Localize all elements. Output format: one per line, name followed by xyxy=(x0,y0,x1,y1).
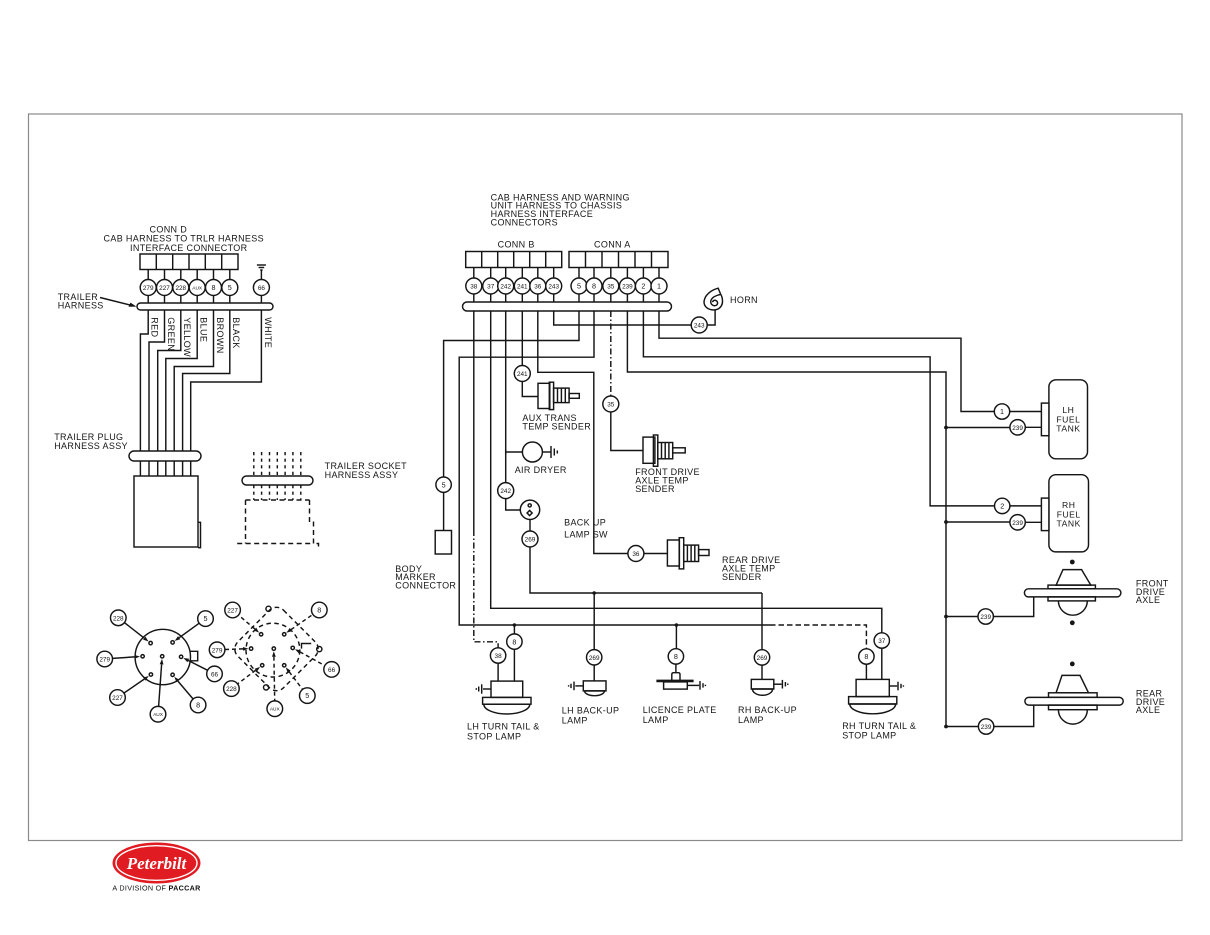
svg-text:CONN A: CONN A xyxy=(594,240,631,250)
svg-text:279: 279 xyxy=(99,657,110,664)
svg-text:242: 242 xyxy=(500,488,511,495)
svg-text:239: 239 xyxy=(622,284,633,291)
node dot below front axle xyxy=(1070,620,1075,625)
svg-text:GREEN: GREEN xyxy=(166,317,176,351)
horn symbol xyxy=(704,288,722,310)
svg-text:35: 35 xyxy=(607,402,615,409)
LH lamp ground xyxy=(476,684,491,693)
svg-text:279: 279 xyxy=(212,647,223,654)
wire 35 run (dash-dot) xyxy=(610,311,612,396)
wire 38 run xyxy=(473,311,475,530)
wire WHITE xyxy=(191,310,262,451)
leads from circles to trailer harness bar xyxy=(148,296,261,304)
socket pin label 228 xyxy=(224,681,240,697)
LH turn tail stop lamp L1 xyxy=(483,681,531,714)
socket pin c xyxy=(272,647,275,650)
wire 239 to RH tank xyxy=(946,521,1010,523)
svg-text:INTERFACE CONNECTOR: INTERFACE CONNECTOR xyxy=(130,243,248,253)
svg-text:CONNECTOR: CONNECTOR xyxy=(395,581,456,591)
svg-text:CONNECTORS: CONNECTORS xyxy=(491,217,558,227)
leader arrow to trailer harness xyxy=(100,298,132,306)
wire 239 to LH tank xyxy=(946,427,1010,429)
svg-text:8: 8 xyxy=(317,606,321,615)
wire conn A 5 run xyxy=(444,311,579,477)
rear drive axle symbol xyxy=(1025,675,1123,724)
RH back-up lamp L4 xyxy=(751,679,788,695)
svg-text:242: 242 xyxy=(500,284,511,291)
svg-text:241: 241 xyxy=(517,284,528,291)
rear drive axle temp sender U3 xyxy=(667,538,709,569)
socket pin label AUX xyxy=(267,701,283,717)
wire circle 243 horn xyxy=(691,317,707,333)
svg-text:LAMP: LAMP xyxy=(738,715,764,725)
svg-text:STOP LAMP: STOP LAMP xyxy=(467,731,521,741)
wire circle 37 RH lamp xyxy=(874,633,889,648)
wire 239 to front axle xyxy=(946,616,978,618)
wire circle 241 xyxy=(514,278,530,294)
svg-text:LH TURN TAIL &: LH TURN TAIL & xyxy=(467,722,540,732)
wire circle 239 xyxy=(619,278,635,294)
wire circle 269 mid xyxy=(522,531,538,547)
pin l xyxy=(141,655,144,658)
wire 242 lower xyxy=(498,483,514,499)
connector face body xyxy=(135,629,190,684)
wire circle 66 xyxy=(253,280,269,296)
svg-text:HARNESS ASSY: HARNESS ASSY xyxy=(54,441,128,451)
svg-text:HORN: HORN xyxy=(730,295,758,305)
wire circle 5 body marker xyxy=(436,477,451,492)
pin bl xyxy=(149,673,152,676)
trailer plug body box xyxy=(134,476,198,547)
wire circle 38 xyxy=(466,278,482,294)
LH back-up lamp L2 xyxy=(569,681,606,696)
pin label 227 xyxy=(110,690,126,706)
svg-text:SENDER: SENDER xyxy=(635,484,675,494)
svg-text:227: 227 xyxy=(159,285,170,292)
junction 8 LH xyxy=(513,623,517,627)
wire circle 2 tank xyxy=(995,498,1010,513)
socket pin tr xyxy=(283,633,286,636)
svg-text:269: 269 xyxy=(525,537,536,544)
svg-text:239: 239 xyxy=(1012,520,1023,527)
wire circle 227 xyxy=(157,280,173,296)
svg-text:2: 2 xyxy=(1000,502,1004,511)
svg-text:YELLOW: YELLOW xyxy=(182,317,192,357)
wire 243 to horn xyxy=(554,311,692,325)
wire conn A 2 run xyxy=(643,311,994,506)
socket mounting hole right xyxy=(317,647,322,652)
junction 239 LH tank xyxy=(944,426,948,430)
pin leads connD xyxy=(148,270,230,280)
air dryer ground xyxy=(551,446,557,458)
wire YELLOW xyxy=(158,310,181,451)
svg-text:243: 243 xyxy=(694,323,705,330)
svg-text:LAMP: LAMP xyxy=(643,715,669,725)
socket pin label 279 xyxy=(209,642,225,658)
svg-text:66: 66 xyxy=(258,285,266,292)
dashed socket wires below bar xyxy=(254,485,301,500)
socket pin r xyxy=(291,646,294,649)
svg-text:66: 66 xyxy=(328,667,336,674)
ground above circle 66 xyxy=(257,265,266,280)
pin tl xyxy=(149,641,152,644)
wire 241 to aux sender xyxy=(522,382,538,397)
svg-text:227: 227 xyxy=(112,695,123,702)
svg-text:AIR DRYER: AIR DRYER xyxy=(515,465,567,475)
wire circle 35 mid xyxy=(603,396,619,412)
svg-text:5: 5 xyxy=(442,480,446,489)
wire 239 trunk run xyxy=(627,311,946,727)
svg-text:A DIVISION OF PACCAR: A DIVISION OF PACCAR xyxy=(112,884,201,893)
svg-text:8: 8 xyxy=(212,283,216,292)
svg-text:243: 243 xyxy=(548,284,559,291)
svg-text:WHITE: WHITE xyxy=(263,317,273,348)
pin leads conn B xyxy=(474,268,554,279)
socket pin label 66 xyxy=(324,662,340,678)
wire circle 35 xyxy=(603,278,619,294)
junction 8 licence xyxy=(675,623,679,627)
svg-text:8: 8 xyxy=(864,652,868,661)
socket key notch xyxy=(302,644,312,649)
wire 269 distribution xyxy=(530,547,762,593)
wire circle 38 LH lamp xyxy=(490,648,505,663)
wire circle 239 RH tank xyxy=(1010,515,1025,530)
wire circle 243 xyxy=(546,278,562,294)
svg-text:228: 228 xyxy=(175,285,186,292)
RH fuel tank xyxy=(1049,475,1089,552)
wire circle AUX xyxy=(189,280,205,296)
wire circle 239 rear axle xyxy=(978,719,993,734)
wire circle 228 xyxy=(173,280,189,296)
svg-text:TANK: TANK xyxy=(1057,519,1081,529)
svg-text:AXLE: AXLE xyxy=(1136,595,1160,605)
chassis harness bar xyxy=(463,302,672,311)
wire 37 run xyxy=(491,311,882,633)
svg-text:8: 8 xyxy=(674,652,678,661)
wire GREEN xyxy=(149,310,165,451)
trailer harness bar xyxy=(137,303,273,310)
wire 242 run xyxy=(505,311,507,483)
pin c xyxy=(161,655,164,658)
svg-text:SENDER: SENDER xyxy=(722,572,762,582)
svg-text:239: 239 xyxy=(980,614,991,621)
svg-text:Peterbilt: Peterbilt xyxy=(126,854,188,873)
socket pin label 5 xyxy=(300,688,316,704)
pin label 5 xyxy=(198,611,214,627)
svg-text:36: 36 xyxy=(632,551,640,558)
svg-text:5: 5 xyxy=(228,283,232,292)
svg-text:1: 1 xyxy=(1000,407,1004,416)
wire circle 269 RH backup xyxy=(754,650,769,665)
svg-text:AXLE: AXLE xyxy=(1136,705,1160,715)
svg-text:269: 269 xyxy=(589,655,600,662)
trailer socket bar xyxy=(242,476,313,485)
wire circle 5 xyxy=(222,280,238,296)
svg-text:37: 37 xyxy=(487,284,495,291)
svg-text:1: 1 xyxy=(657,282,661,291)
svg-text:AUX: AUX xyxy=(270,707,281,713)
back up lamp switch S1 xyxy=(520,500,539,519)
svg-text:227: 227 xyxy=(227,608,238,615)
pin tr xyxy=(171,641,174,644)
wire circle 37 xyxy=(483,278,499,294)
junction 239 RH tank xyxy=(944,520,948,524)
wire circle 8 RH lamp xyxy=(859,649,874,664)
wire switch to 269 xyxy=(529,520,531,532)
svg-text:RED: RED xyxy=(150,317,160,337)
wire circle 36 xyxy=(530,278,546,294)
wire circle 8 xyxy=(206,280,222,296)
svg-text:2: 2 xyxy=(641,282,645,291)
socket pin label 8 xyxy=(312,602,328,618)
RH turn tail stop lamp L5 xyxy=(849,679,904,713)
svg-text:AUX: AUX xyxy=(153,712,164,718)
svg-text:5: 5 xyxy=(577,282,581,291)
svg-text:RH TURN TAIL &: RH TURN TAIL & xyxy=(842,721,916,731)
svg-text:8: 8 xyxy=(512,637,516,646)
wire 239 to rear axle xyxy=(946,726,978,728)
wire circle 8 licence xyxy=(668,649,683,664)
trailer plug bar xyxy=(129,451,201,461)
body marker connector J1 xyxy=(435,531,451,555)
wire to LH circle 8 xyxy=(513,625,515,634)
socket pin bl xyxy=(261,664,264,667)
pin label AUX xyxy=(150,706,166,722)
leads circles to chassis bar xyxy=(474,294,659,302)
wire circle 1 tank xyxy=(994,404,1009,419)
svg-text:TEMP SENDER: TEMP SENDER xyxy=(522,422,591,432)
svg-text:STOP LAMP: STOP LAMP xyxy=(842,731,896,741)
wire circle 8 xyxy=(586,278,602,294)
pin r xyxy=(179,655,182,658)
svg-text:239: 239 xyxy=(981,724,992,731)
wire BLACK xyxy=(183,310,230,451)
socket pin br xyxy=(283,664,286,667)
pin label 279 xyxy=(97,651,113,667)
wire circle 279 xyxy=(140,280,156,296)
svg-text:5: 5 xyxy=(204,614,208,623)
licence plate lamp L3 xyxy=(656,673,705,690)
socket face plate dashed diamond xyxy=(231,603,323,695)
svg-text:228: 228 xyxy=(113,615,124,622)
wire circle 36 mid xyxy=(628,546,644,562)
svg-text:TANK: TANK xyxy=(1056,424,1080,434)
connector D strip xyxy=(140,254,238,270)
wire conn A 8 run xyxy=(459,311,770,625)
pin br xyxy=(171,673,174,676)
node dot above front axle xyxy=(1070,560,1075,565)
svg-text:LAMP SW: LAMP SW xyxy=(564,529,608,539)
pin leads conn A xyxy=(579,268,659,279)
svg-text:38: 38 xyxy=(470,284,478,291)
wire circle 242 xyxy=(498,278,514,294)
connector face key notch xyxy=(190,651,198,661)
svg-text:LAMP: LAMP xyxy=(562,716,588,726)
wire circle 241 mid xyxy=(514,366,530,382)
wire circle 239 front axle xyxy=(978,609,993,624)
svg-text:228: 228 xyxy=(226,686,237,693)
pin label 66 xyxy=(207,666,223,682)
svg-text:BROWN: BROWN xyxy=(215,317,225,353)
page border frame xyxy=(29,114,1183,841)
trailer plug box tab xyxy=(198,522,201,547)
node dot above rear axle xyxy=(1070,662,1075,667)
trailer socket dashed box xyxy=(237,500,318,547)
pin label 228 xyxy=(111,610,127,626)
front drive axle temp sender U2 xyxy=(643,435,685,466)
socket pin l xyxy=(249,647,252,650)
junction 269 LH xyxy=(592,591,596,595)
svg-text:241: 241 xyxy=(517,371,528,378)
svg-text:HARNESS ASSY: HARNESS ASSY xyxy=(325,470,399,480)
svg-text:CONN B: CONN B xyxy=(498,240,535,250)
socket pin label 227 xyxy=(225,602,241,618)
svg-text:LICENCE PLATE: LICENCE PLATE xyxy=(643,705,717,715)
wire BLUE xyxy=(166,310,197,451)
wire circle 1 xyxy=(651,278,667,294)
socket face circle dashed xyxy=(246,623,300,677)
pin label 8 xyxy=(190,697,206,713)
svg-text:279: 279 xyxy=(143,285,154,292)
wire 36 run xyxy=(538,311,628,554)
aux trans temp sender U1 xyxy=(538,382,579,409)
svg-text:36: 36 xyxy=(534,284,542,291)
wire conn A 1 run xyxy=(659,311,994,412)
wire circle 269 LH backup xyxy=(587,650,602,665)
air dryer xyxy=(522,442,542,462)
LH fuel tank xyxy=(1049,380,1088,459)
svg-text:269: 269 xyxy=(757,655,768,662)
wire circle 2 xyxy=(635,278,651,294)
svg-text:8: 8 xyxy=(196,701,200,710)
connector B strip xyxy=(466,252,562,268)
wire 241 run xyxy=(521,311,523,366)
svg-text:HARNESS: HARNESS xyxy=(58,301,104,311)
wire BROWN xyxy=(174,310,213,451)
wire circle 5 xyxy=(571,278,587,294)
svg-text:LH BACK-UP: LH BACK-UP xyxy=(562,706,620,716)
wire RED xyxy=(140,310,148,451)
svg-text:37: 37 xyxy=(878,638,886,645)
svg-text:BACK UP: BACK UP xyxy=(564,517,606,527)
svg-text:AUX: AUX xyxy=(192,286,203,292)
svg-text:35: 35 xyxy=(607,284,615,291)
svg-text:8: 8 xyxy=(592,282,596,291)
front drive axle symbol xyxy=(1024,570,1121,616)
wires plug bar to plug box xyxy=(140,461,190,476)
svg-text:5: 5 xyxy=(305,691,309,700)
socket mounting hole top xyxy=(266,606,271,611)
socket pin tl xyxy=(259,633,262,636)
svg-text:BLUE: BLUE xyxy=(199,317,209,342)
air dryer tap wire xyxy=(506,451,523,453)
svg-text:RH BACK-UP: RH BACK-UP xyxy=(738,705,797,715)
svg-text:BLACK: BLACK xyxy=(231,317,241,348)
svg-text:38: 38 xyxy=(495,653,503,660)
wire circle 239 LH tank xyxy=(1010,420,1025,435)
svg-text:66: 66 xyxy=(211,671,219,678)
dashed socket wires above bar xyxy=(254,452,301,476)
wire 35 to front sender xyxy=(611,412,643,451)
socket mounting hole bottom xyxy=(264,685,269,690)
svg-text:239: 239 xyxy=(1012,425,1023,432)
connector A strip xyxy=(569,252,668,268)
wire circle 8 LH lamp xyxy=(507,634,522,649)
